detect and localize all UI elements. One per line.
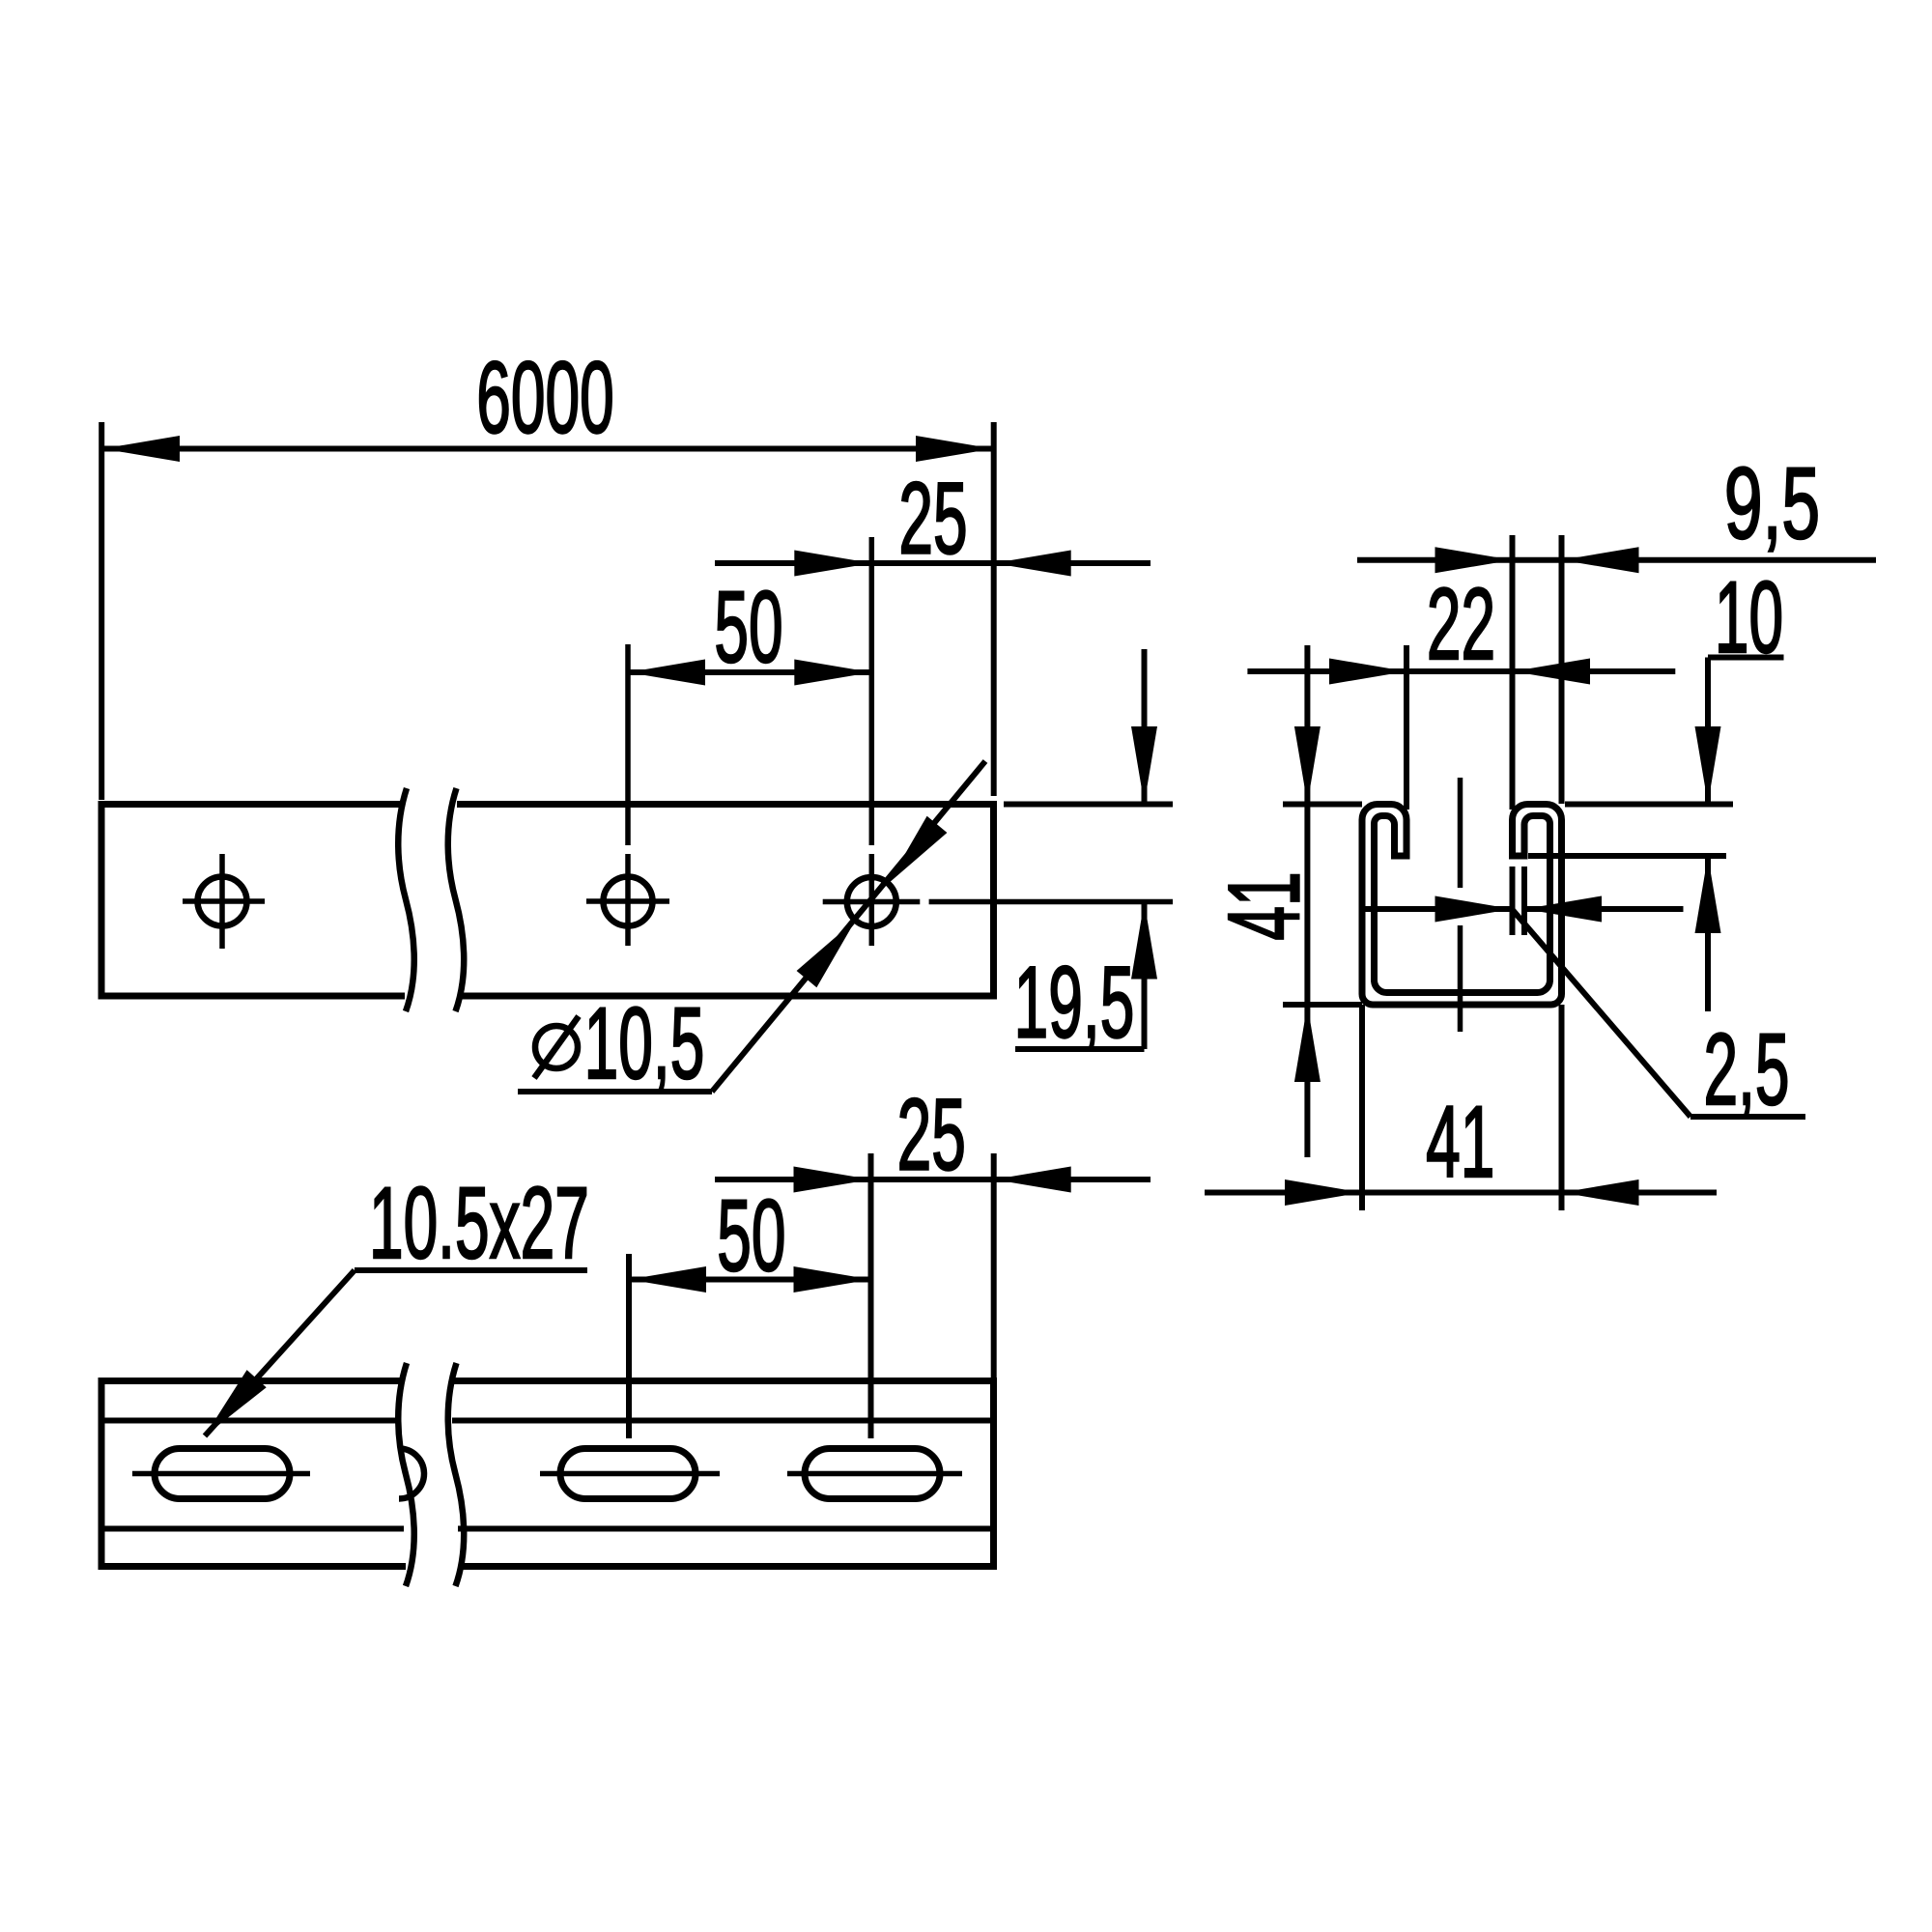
- dim 10 shelf+line: [1708, 655, 1784, 661]
- leader dia 10.5: [518, 1089, 712, 1094]
- bottom view: channel open side with slots: [101, 1378, 994, 1570]
- break line squiggles top view: [398, 788, 464, 1011]
- svg-text:10,5: 10,5: [584, 987, 705, 1100]
- diameter symbol: [534, 1016, 579, 1078]
- svg-text:6000: 6000: [476, 341, 613, 454]
- dim 41 bottom: [1205, 1190, 1717, 1196]
- dim 6000 extension lines: [99, 422, 104, 800]
- svg-text:22: 22: [1427, 568, 1495, 681]
- svg-text:9,5: 9,5: [1724, 447, 1820, 560]
- section view: C profile: [1362, 805, 1562, 1006]
- hole centerlines: [183, 537, 1173, 949]
- dim 19.5 extension: top edge: [1004, 802, 1173, 808]
- svg-text:41: 41: [1426, 1086, 1494, 1199]
- svg-text:25: 25: [897, 1078, 966, 1191]
- break line squiggles bottom view: [398, 1363, 464, 1586]
- dimensions section view: [1205, 535, 1876, 1210]
- svg-text:50: 50: [717, 1179, 785, 1293]
- dim 19.5 underline: [1015, 1046, 1145, 1052]
- ext outer right: [1559, 535, 1565, 804]
- dim 41 left vertical: [1304, 645, 1310, 1005]
- holes: [198, 877, 896, 927]
- leader 2.5: [1512, 909, 1690, 1117]
- svg-text:25: 25: [898, 462, 967, 575]
- section centerline: [1458, 778, 1463, 1032]
- leader 10.5x27: [355, 1267, 587, 1273]
- svg-text:2,5: 2,5: [1703, 1013, 1789, 1126]
- svg-text:41: 41: [1207, 871, 1321, 940]
- thickness 2.5 lines: [1510, 867, 1516, 935]
- svg-text:10.5x27: 10.5x27: [369, 1167, 589, 1280]
- dim 19.5 vertical: [1142, 649, 1148, 804]
- dim 9.5 line: [1357, 557, 1876, 563]
- slot centerlines: [132, 1471, 962, 1477]
- top view: channel back side with round holes: [101, 801, 994, 1000]
- dim 6000 line: [102, 446, 993, 452]
- dim 50 bottom line: [629, 1277, 871, 1283]
- dimensions bottom view: [205, 1153, 1151, 1438]
- dim 25 top line: [715, 560, 1151, 566]
- ext lines right of profile: [1565, 802, 1733, 808]
- extension lines: [868, 1153, 874, 1438]
- svg-text:50: 50: [714, 571, 782, 684]
- top view outline: [101, 801, 403, 808]
- cut slot fragment at break: [399, 1449, 424, 1499]
- dim 50 top line: [628, 669, 871, 675]
- svg-text:19,5: 19,5: [1014, 946, 1135, 1059]
- svg-text:10: 10: [1715, 561, 1783, 674]
- arrowheads top view: [102, 436, 1157, 987]
- dimensions top view: [101, 422, 1173, 1092]
- dim 25 bottom line: [715, 1177, 1151, 1182]
- ext 41 left: [1283, 802, 1362, 808]
- ext slot left edge: [1404, 645, 1409, 810]
- slots 10.5x27: [155, 1449, 940, 1499]
- ext slot right edge: [1510, 535, 1516, 810]
- dim 22 line: [1247, 668, 1675, 674]
